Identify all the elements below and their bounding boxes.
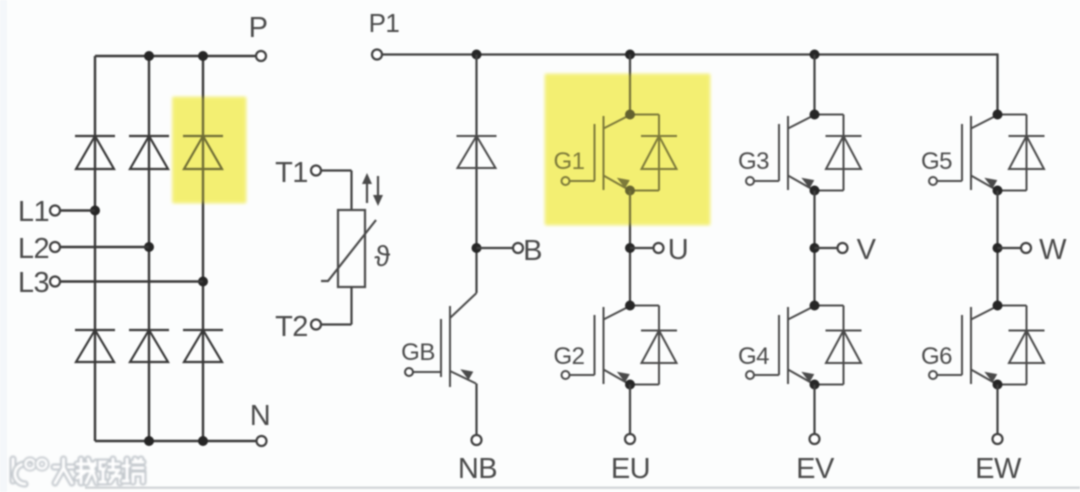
svg-text:EW: EW [975, 453, 1022, 485]
svg-text:P1: P1 [369, 8, 400, 38]
svg-text:G3: G3 [738, 148, 769, 175]
svg-text:GB: GB [401, 339, 435, 366]
svg-text:T2: T2 [275, 311, 308, 343]
svg-text:L1: L1 [18, 196, 49, 228]
svg-text:G4: G4 [738, 343, 769, 370]
svg-text:P: P [249, 12, 268, 44]
svg-text:L3: L3 [18, 267, 49, 299]
svg-text:ϑ: ϑ [374, 241, 390, 273]
svg-text:EU: EU [611, 453, 650, 485]
svg-text:T1: T1 [275, 157, 308, 189]
svg-text:W: W [1039, 234, 1067, 266]
svg-text:U: U [668, 234, 688, 266]
svg-text:L2: L2 [18, 233, 49, 265]
svg-text:G5: G5 [921, 148, 952, 175]
svg-text:G6: G6 [921, 343, 952, 370]
svg-text:N: N [250, 400, 270, 432]
svg-text:G2: G2 [553, 343, 584, 370]
svg-text:NB: NB [458, 453, 497, 485]
svg-text:EV: EV [796, 453, 835, 485]
svg-text:V: V [857, 234, 877, 266]
svg-text:B: B [523, 235, 542, 267]
